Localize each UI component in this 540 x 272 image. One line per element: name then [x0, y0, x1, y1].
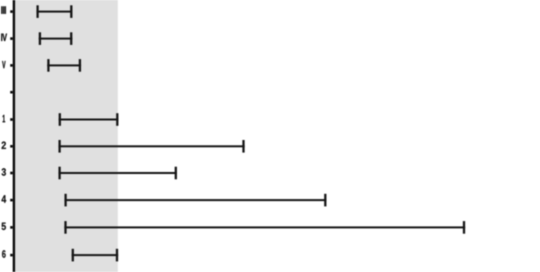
- tick row IV: [10, 37, 13, 40]
- label 1: [3, 115, 6, 122]
- interval bar 4: [64, 194, 326, 207]
- interval bar 1: [59, 113, 119, 126]
- label V: [2, 61, 5, 68]
- tick row 6: [10, 254, 13, 257]
- shaded reference band: [15, 0, 118, 272]
- interval bar 5: [64, 221, 465, 234]
- label 5: [2, 223, 6, 230]
- tick row 5: [10, 226, 13, 229]
- label 4: [2, 195, 7, 202]
- tick row 1: [10, 118, 13, 121]
- label 3: [2, 168, 6, 175]
- tick unlabeled row: [10, 91, 13, 94]
- interval bar III: [36, 5, 72, 18]
- label III: [1, 6, 6, 13]
- interval bar 3: [58, 167, 177, 180]
- interval bar V: [47, 59, 81, 72]
- y-axis line: [13, 0, 15, 272]
- interval bar IV: [39, 32, 73, 45]
- label 6: [2, 250, 6, 258]
- tick row 4: [10, 199, 13, 202]
- tick row 2: [10, 145, 13, 148]
- tick row 3: [10, 172, 13, 175]
- tick row III: [10, 10, 13, 13]
- label IV: [1, 34, 7, 41]
- interval bar 6: [72, 249, 119, 262]
- interval bar 2: [58, 140, 244, 153]
- label 2: [2, 142, 6, 149]
- tick row V: [10, 64, 13, 67]
